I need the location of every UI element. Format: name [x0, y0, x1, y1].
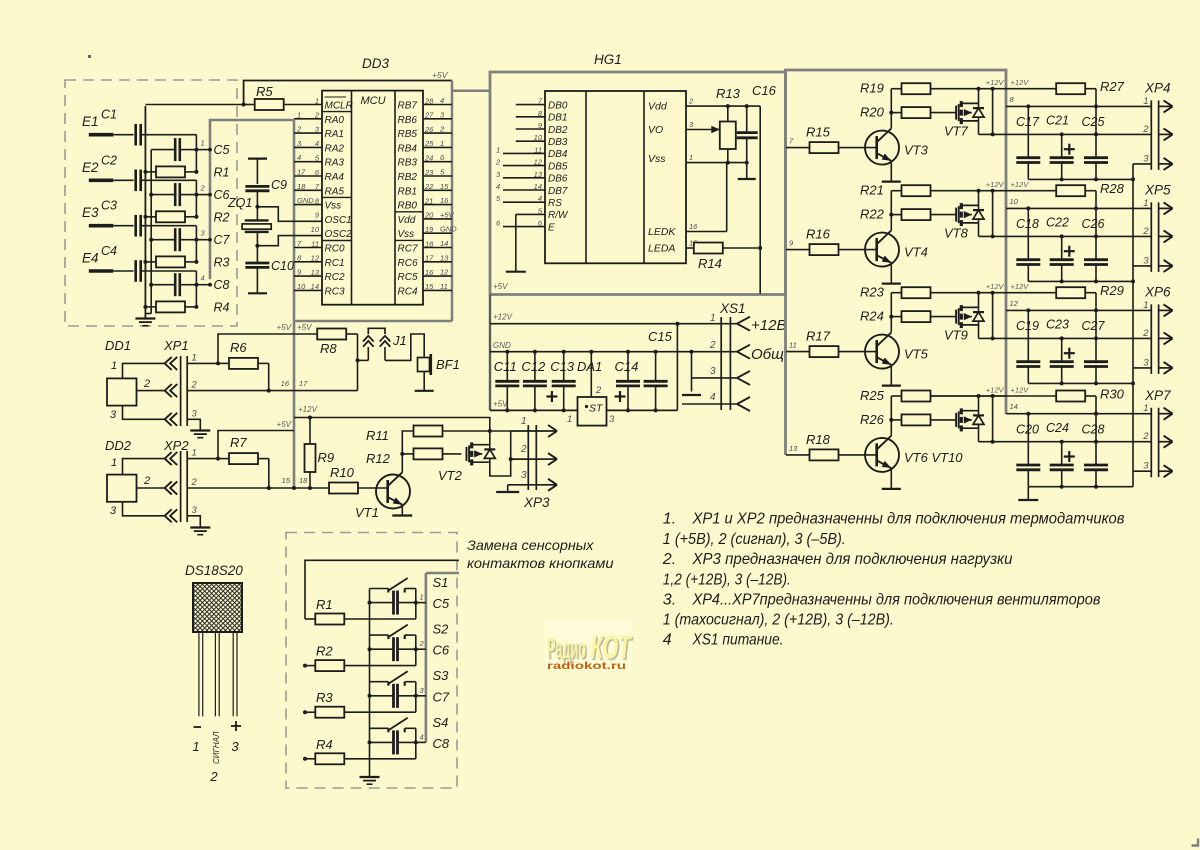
- svg-text:+12V: +12V: [986, 180, 1005, 189]
- pin RB5 stub: [423, 132, 452, 134]
- resistor R21: [891, 185, 1006, 196]
- svg-text:ZQ1: ZQ1: [227, 196, 252, 210]
- DS18S20 leg 1: [199, 632, 203, 716]
- svg-text:RA1: RA1: [325, 129, 344, 140]
- wire XP4 pin2: [993, 132, 1152, 136]
- pad E4: [89, 269, 134, 273]
- resistor R29: [1056, 287, 1096, 338]
- svg-text:RC2: RC2: [325, 272, 345, 283]
- wire DD2 pin2: [137, 487, 165, 489]
- transistor VT4: [865, 230, 899, 266]
- wire DD1 pin2: [137, 390, 165, 392]
- R3 btn junction: [303, 710, 307, 714]
- svg-text:1: 1: [1143, 300, 1148, 311]
- pad E3: [89, 224, 134, 228]
- wire net16-17: [269, 390, 358, 392]
- svg-text:C21: C21: [1046, 114, 1069, 128]
- resistor R2(sensor): [143, 211, 196, 222]
- wire Vss line: [686, 161, 749, 165]
- svg-text:+5V: +5V: [277, 420, 292, 429]
- svg-text:RB7: RB7: [398, 101, 418, 112]
- wire +12V XP7: [1006, 395, 1057, 397]
- svg-text:3: 3: [521, 470, 527, 481]
- svg-text:R15: R15: [806, 125, 831, 140]
- svg-text:+12V: +12V: [986, 386, 1005, 395]
- svg-text:2: 2: [595, 385, 602, 396]
- svg-text:XP1: XP1: [163, 338, 189, 353]
- svg-text:12: 12: [440, 268, 449, 277]
- capacitor C8(btn): [368, 730, 418, 754]
- svg-text:HG1: HG1: [594, 52, 622, 67]
- svg-text:GND: GND: [493, 341, 511, 350]
- svg-text:+12V: +12V: [1011, 282, 1030, 291]
- svg-text:MCLR: MCLR: [325, 101, 353, 112]
- XP7 arrow1: [1159, 408, 1173, 420]
- transistor VT6: [865, 436, 899, 472]
- XP1 chevron 3: [165, 413, 178, 426]
- svg-text:VT7: VT7: [944, 124, 969, 139]
- lcd pin RS stub: [503, 201, 545, 203]
- transistor VT1: [376, 472, 410, 508]
- svg-text:+5V: +5V: [493, 400, 508, 409]
- capacitor C13: [552, 352, 576, 411]
- svg-text:DS18S20: DS18S20: [185, 563, 243, 578]
- svg-text:12: 12: [311, 254, 320, 263]
- svg-text:16: 16: [440, 196, 449, 205]
- connector XP6: [1151, 304, 1158, 374]
- svg-text:RS: RS: [548, 198, 562, 209]
- pin RB3 stub: [423, 161, 452, 163]
- svg-text:DD3: DD3: [362, 56, 389, 71]
- svg-text:XP2: XP2: [163, 438, 189, 453]
- svg-text:C28: C28: [1082, 423, 1105, 437]
- btn stub 4: [416, 741, 426, 743]
- VT3 collector: [890, 89, 892, 129]
- wire gnd drop: [691, 352, 693, 392]
- junction XP3 pin2: [509, 457, 513, 461]
- VT8 source loop: [979, 191, 995, 239]
- btn stub 1: [416, 602, 426, 604]
- svg-text:13: 13: [440, 253, 449, 262]
- XP7 arrow3: [1159, 465, 1173, 477]
- resistor R16: [810, 244, 877, 255]
- capacitor C9: [245, 186, 269, 190]
- svg-text:28: 28: [424, 96, 434, 105]
- svg-text:XP4: XP4: [1144, 81, 1171, 96]
- resistor R1(sensor): [143, 166, 196, 177]
- wire XP5 pin1: [1006, 206, 1151, 210]
- svg-text:+12V: +12V: [298, 405, 318, 414]
- svg-text:+12V: +12V: [1011, 78, 1030, 87]
- svg-text:RC1: RC1: [325, 258, 345, 269]
- pin RA5 stub: [294, 189, 322, 191]
- wire XP4 pin3: [1133, 163, 1151, 165]
- svg-text:C12: C12: [521, 359, 546, 374]
- svg-text:3: 3: [1143, 255, 1149, 266]
- svg-text:+5V: +5V: [277, 323, 292, 332]
- svg-text:4: 4: [315, 139, 319, 148]
- svg-text:18: 18: [299, 476, 308, 485]
- gray box HG1: [490, 72, 786, 295]
- svg-text:15: 15: [425, 282, 434, 291]
- wire XP7 pin2: [993, 440, 1152, 444]
- svg-text:RC0: RC0: [325, 244, 345, 255]
- capacitor C20: [1016, 414, 1040, 487]
- pin RA1 stub: [294, 132, 322, 134]
- wire LEDK: [686, 163, 727, 232]
- VT5 collector: [890, 293, 892, 333]
- svg-text:R12: R12: [366, 451, 391, 466]
- svg-text:E4: E4: [82, 251, 99, 266]
- svg-text:3: 3: [110, 505, 117, 517]
- svg-text:ST: ST: [589, 403, 604, 415]
- svg-text:C24: C24: [1046, 421, 1069, 435]
- switch S4: [370, 718, 416, 759]
- svg-text:1,2 (+12В), 3 (–12В).: 1,2 (+12В), 3 (–12В).: [663, 571, 791, 588]
- svg-text:КОТ: КОТ: [591, 629, 633, 666]
- svg-text:3: 3: [110, 409, 117, 421]
- svg-text:DB4: DB4: [548, 149, 568, 160]
- XP4 arrow2: [1159, 128, 1173, 140]
- DS18S20 leg 3: [233, 632, 237, 716]
- svg-text:1: 1: [496, 145, 500, 154]
- svg-text:3: 3: [231, 739, 239, 754]
- svg-text:27: 27: [424, 111, 434, 120]
- svg-text:E3: E3: [82, 205, 99, 220]
- mosfet VT10: [956, 408, 978, 431]
- capacitor C14: [616, 352, 640, 411]
- svg-text:S2: S2: [433, 622, 450, 637]
- wire +12V rail: [294, 418, 511, 432]
- svg-text:R14: R14: [698, 256, 722, 271]
- svg-text:2: 2: [143, 378, 150, 390]
- capacitor C6: [149, 183, 198, 206]
- pin RA0 stub: [294, 118, 322, 120]
- svg-text:RA2: RA2: [325, 143, 345, 154]
- wire ZQ1-OSC2: [255, 232, 322, 263]
- pin RC5 stub: [423, 275, 452, 277]
- XS1 ground: [682, 394, 701, 396]
- resistor R4(btn): [305, 753, 416, 764]
- resistor R1(btn): [305, 614, 416, 625]
- capacitor C6(btn): [368, 637, 418, 661]
- net 13 stub: [786, 454, 810, 456]
- wire XP7 pin3: [1133, 470, 1151, 472]
- net 7 stub: [786, 147, 810, 149]
- capacitor C7: [149, 228, 198, 251]
- svg-text:R30: R30: [1100, 387, 1125, 402]
- svg-text:Замена сенсорных: Замена сенсорных: [467, 537, 595, 553]
- svg-text:R10: R10: [330, 465, 355, 480]
- svg-text:2: 2: [314, 111, 320, 120]
- svg-text:DB5: DB5: [548, 161, 568, 172]
- svg-text:3: 3: [192, 505, 198, 516]
- connector XP3: [528, 425, 536, 490]
- svg-text:11: 11: [311, 239, 319, 248]
- wire rail XP5: [1028, 279, 1135, 283]
- wire DD2 pin1: [123, 459, 165, 475]
- svg-text:DB1: DB1: [548, 113, 567, 124]
- wire +12V input rail: [490, 322, 738, 326]
- mosfet VT7: [956, 101, 978, 124]
- lcd pin DB4 stub: [503, 152, 545, 154]
- svg-text:R9: R9: [318, 450, 335, 465]
- svg-text:C6: C6: [433, 643, 450, 658]
- XP6 arrow2: [1159, 332, 1173, 344]
- svg-text:XP7: XP7: [1144, 388, 1171, 403]
- svg-text:RB6: RB6: [398, 115, 418, 126]
- svg-text:1: 1: [567, 414, 572, 425]
- svg-text:XP6: XP6: [1144, 285, 1171, 300]
- pin RB1 stub: [423, 189, 452, 191]
- svg-text:C25: C25: [1082, 115, 1105, 129]
- capacitor C18: [1016, 208, 1040, 281]
- svg-text:15: 15: [282, 476, 291, 485]
- wire +12V XP4: [1006, 88, 1057, 90]
- wire +5V R8: [294, 333, 317, 335]
- svg-text:+5V: +5V: [493, 282, 508, 291]
- svg-text:R4: R4: [316, 737, 333, 752]
- connector XP5: [1151, 202, 1158, 272]
- svg-text:C4: C4: [101, 244, 117, 258]
- XP2 chevron 1: [165, 452, 178, 465]
- svg-text:2: 2: [520, 444, 527, 455]
- svg-text:4: 4: [538, 194, 542, 203]
- junction bundle end: [292, 486, 296, 490]
- svg-text:2: 2: [209, 769, 218, 784]
- junction R7: [216, 457, 220, 461]
- svg-text:C10: C10: [271, 259, 294, 273]
- resistor R25: [891, 391, 1006, 402]
- buzzer BF1: [418, 354, 431, 375]
- XP1 pin3 ground: [187, 419, 210, 437]
- svg-text:DB2: DB2: [548, 125, 568, 136]
- capacitor C21: [1050, 134, 1074, 179]
- svg-text:BF1: BF1: [436, 357, 460, 372]
- svg-text:3: 3: [192, 408, 198, 419]
- wire +5V feed HG1: [758, 106, 762, 293]
- pin Vss stub: [294, 204, 322, 206]
- svg-text:13: 13: [789, 444, 798, 453]
- svg-text:RB4: RB4: [398, 143, 418, 154]
- XP3 pin3: [508, 479, 557, 491]
- resistor R8: [317, 329, 357, 340]
- svg-text:1: 1: [192, 352, 197, 363]
- svg-text:2: 2: [143, 475, 150, 487]
- svg-text:GND: GND: [297, 196, 314, 205]
- svg-text:4: 4: [297, 153, 301, 162]
- svg-text:R18: R18: [806, 432, 831, 447]
- resistor R2(btn): [305, 660, 416, 671]
- capacitor C15: [644, 352, 668, 411]
- logo bg: [545, 621, 632, 670]
- regulator DA1: [578, 397, 607, 426]
- XP3 pin2: [511, 453, 557, 465]
- transistor VT5: [865, 332, 899, 368]
- svg-text:R2: R2: [214, 210, 230, 224]
- svg-text:C7: C7: [433, 689, 450, 704]
- svg-text:R25: R25: [860, 388, 885, 403]
- svg-text:2: 2: [495, 158, 501, 167]
- corner dot: [88, 55, 91, 58]
- gray bus DD3 bottom: [294, 320, 452, 323]
- wire +5V R7: [218, 431, 294, 459]
- svg-text:21: 21: [424, 196, 433, 205]
- switch S1: [370, 578, 416, 619]
- pin RB7 stub: [423, 104, 452, 106]
- svg-text:C8: C8: [214, 278, 230, 292]
- svg-text:23: 23: [424, 168, 434, 177]
- lcd pin DB1 stub: [516, 116, 545, 118]
- XP7 rail ground: [1018, 487, 1038, 500]
- VT4 emitter ground: [882, 263, 901, 284]
- svg-text:C27: C27: [1082, 319, 1106, 333]
- svg-text:3: 3: [1143, 461, 1149, 472]
- svg-text:DA1: DA1: [577, 359, 602, 374]
- svg-text:RB5: RB5: [398, 129, 418, 140]
- capacitor C1: [136, 124, 197, 146]
- XP1 pin1 wire out: [187, 362, 218, 364]
- svg-text:R20: R20: [860, 105, 885, 120]
- VT9 drain-diode: [973, 293, 984, 339]
- svg-text:17: 17: [425, 254, 434, 263]
- C12 plus: [546, 391, 557, 402]
- svg-text:XP5: XP5: [1144, 183, 1171, 198]
- svg-text:VT8: VT8: [944, 226, 969, 241]
- switch S2: [370, 625, 416, 666]
- svg-text:XP3 предназначен для подключен: XP3 предназначен для подключения нагрузк…: [692, 551, 1013, 568]
- svg-text:25: 25: [424, 139, 434, 148]
- svg-text:RC3: RC3: [325, 286, 345, 297]
- wire Vdd line: [686, 104, 760, 108]
- svg-text:19: 19: [425, 225, 434, 234]
- svg-text:2: 2: [709, 340, 716, 351]
- ic DD3 MCU box: [322, 91, 423, 305]
- resistor R3(btn): [305, 707, 416, 718]
- svg-text:1 (тахосигнал), 2 (+12В), 3 (–: 1 (тахосигнал), 2 (+12В), 3 (–12В).: [663, 612, 894, 629]
- svg-text:C1: C1: [101, 108, 117, 122]
- capacitor C22: [1050, 236, 1074, 281]
- svg-text:R/W: R/W: [548, 210, 569, 221]
- XP3 pin1: [511, 425, 557, 437]
- svg-text:24: 24: [424, 154, 433, 163]
- wire rail XP6: [1028, 381, 1135, 385]
- svg-text:СИГНАЛ: СИГНАЛ: [212, 731, 221, 764]
- resistor R17: [810, 346, 877, 357]
- wire +12V XP5: [1006, 190, 1057, 192]
- svg-text:14: 14: [440, 239, 448, 248]
- svg-text:2: 2: [200, 184, 206, 193]
- resistor R5: [244, 99, 322, 110]
- resistor R15: [810, 142, 877, 153]
- lcd pin DB6 stub: [503, 177, 545, 179]
- svg-text:XP4...XP7предназначенны для по: XP4...XP7предназначенны для подключения …: [692, 591, 1101, 608]
- mosfet VT2: [467, 442, 489, 465]
- VT3 emitter ground: [882, 161, 901, 182]
- wire XP3 pin1-2 link: [510, 431, 512, 459]
- svg-text:Vss: Vss: [648, 153, 666, 165]
- VT10 source loop: [979, 396, 995, 444]
- svg-text:C22: C22: [1046, 216, 1069, 230]
- R2 btn junction: [303, 664, 307, 668]
- XS1 pin3: [692, 371, 751, 385]
- buttons top wire: [305, 560, 459, 619]
- svg-text:3.: 3.: [663, 591, 676, 608]
- svg-text:C18: C18: [1016, 217, 1039, 231]
- svg-text:R28: R28: [1100, 181, 1125, 196]
- XP5 arrow3: [1159, 260, 1173, 272]
- svg-text:R1: R1: [214, 165, 230, 179]
- wire XP4 pin1: [1006, 104, 1151, 108]
- VT2 drain wire: [489, 431, 491, 449]
- svg-text:radiokot.ru: radiokot.ru: [547, 661, 626, 672]
- svg-text:11: 11: [440, 282, 448, 291]
- svg-text:R5: R5: [256, 84, 273, 99]
- C22 plus: [1064, 246, 1075, 257]
- resistor R14: [686, 243, 760, 254]
- svg-text:4: 4: [201, 274, 205, 283]
- VT9 source loop: [979, 293, 995, 341]
- bus B cap common: [150, 150, 152, 314]
- svg-text:DB6: DB6: [548, 174, 568, 185]
- svg-text:R7: R7: [230, 435, 247, 450]
- terminal bar top: [248, 159, 267, 184]
- wire GND rail: [490, 350, 737, 354]
- svg-text:C5: C5: [433, 596, 450, 611]
- svg-text:DB0: DB0: [548, 100, 568, 111]
- svg-text:+5V: +5V: [440, 210, 455, 219]
- pin RC4 stub: [423, 289, 452, 291]
- resistor R4(sensor): [143, 301, 196, 312]
- connector XP7: [1151, 408, 1158, 478]
- connector XP2: [181, 451, 188, 522]
- XP2 pin1 wire out: [187, 458, 218, 460]
- R4 btn junction: [303, 757, 307, 761]
- lcd pin DB7 stub: [503, 189, 545, 191]
- DS18S20 leg 2: [215, 632, 219, 716]
- wire XP5 pin3: [1133, 265, 1151, 267]
- svg-text:RC4: RC4: [398, 286, 418, 297]
- svg-text:1: 1: [1143, 96, 1148, 107]
- node 2 stub: [196, 193, 212, 197]
- capacitor C24: [1050, 442, 1074, 487]
- resistor R27: [1056, 83, 1096, 134]
- svg-text:1: 1: [420, 593, 424, 602]
- ground sensor module: [135, 106, 155, 326]
- svg-text:C14: C14: [615, 359, 639, 374]
- XP1 chevron 2: [165, 384, 178, 397]
- lcd pin DB3 stub: [516, 140, 545, 142]
- svg-text:+12V: +12V: [986, 282, 1005, 291]
- node 1 stub: [196, 148, 212, 152]
- XP7 arrow2: [1159, 436, 1173, 448]
- C16 ground: [738, 163, 756, 179]
- resistor R18: [810, 449, 877, 460]
- capacitor C3: [136, 215, 197, 237]
- svg-text:OSC2: OSC2: [325, 229, 353, 240]
- jumper J1: [358, 328, 425, 360]
- svg-text:OSC1: OSC1: [325, 215, 352, 226]
- gray bus vertical to MCU: [293, 120, 296, 488]
- svg-text:2: 2: [191, 477, 198, 488]
- svg-text:18: 18: [297, 182, 306, 191]
- pin RB6 stub: [423, 118, 452, 120]
- svg-text:R8: R8: [320, 341, 337, 356]
- svg-text:1: 1: [440, 139, 444, 148]
- svg-text:XS1 питание.: XS1 питание.: [692, 632, 784, 649]
- VT2 source wire: [490, 459, 511, 477]
- svg-text:R27: R27: [1100, 79, 1125, 94]
